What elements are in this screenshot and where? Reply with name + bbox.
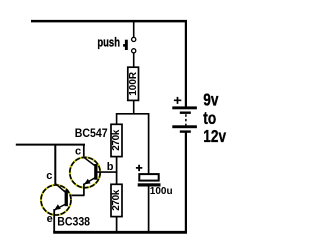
- svg-text:c: c: [46, 170, 52, 182]
- svg-text:BC547: BC547: [75, 127, 108, 140]
- svg-text:270k: 270k: [111, 189, 122, 210]
- svg-text:c: c: [75, 145, 81, 157]
- svg-text:to: to: [203, 109, 216, 128]
- svg-text:12v: 12v: [203, 128, 226, 147]
- svg-text:100u: 100u: [150, 186, 173, 197]
- svg-text:BC338: BC338: [57, 216, 90, 229]
- svg-text:b: b: [107, 161, 114, 173]
- svg-text:270k: 270k: [111, 129, 122, 150]
- svg-text:e: e: [47, 213, 53, 225]
- svg-text:100R: 100R: [128, 71, 139, 96]
- svg-text:push: push: [97, 36, 120, 50]
- svg-text:9v: 9v: [203, 91, 218, 110]
